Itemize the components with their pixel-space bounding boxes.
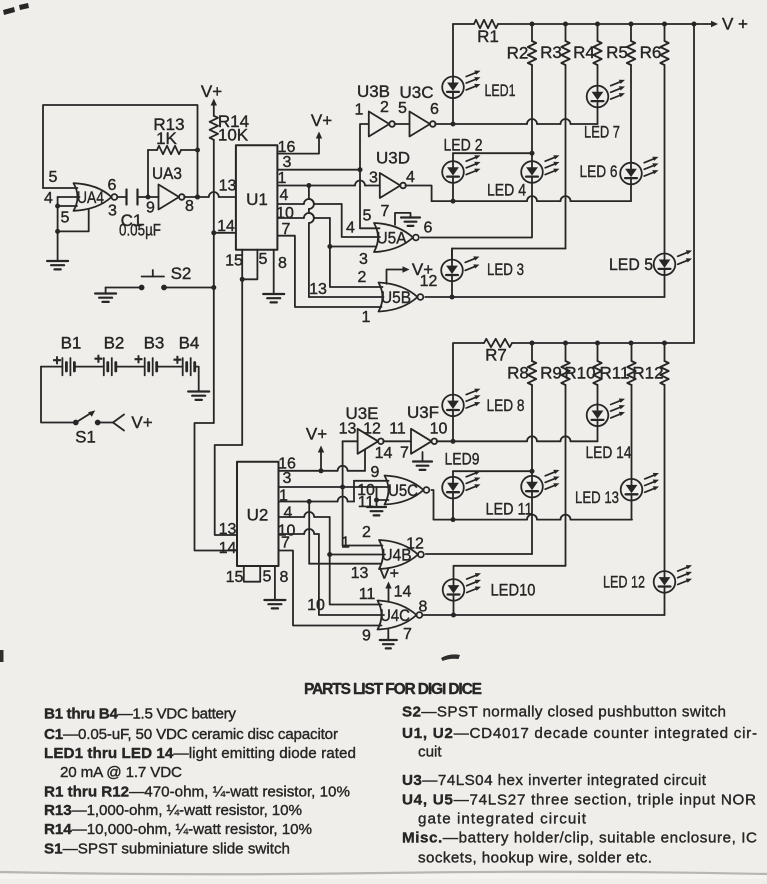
wire U1 pin7 to U5B pin1 xyxy=(277,236,381,307)
wire U1 pin14 xyxy=(214,232,236,234)
pin label 10 U5C xyxy=(357,482,375,499)
wire R4 to LED7 xyxy=(597,65,599,86)
artifact top-left marks xyxy=(3,3,29,15)
svg-text:B3: B3 xyxy=(144,334,165,353)
svg-text:5: 5 xyxy=(61,210,70,227)
wire LED1 cathode xyxy=(452,98,454,124)
pin label 13 U3E xyxy=(339,421,357,438)
pin label 7 U3F xyxy=(400,445,409,462)
wire to U2 pin13 xyxy=(215,279,243,535)
LED LED1 xyxy=(442,71,515,101)
pin label 4 UA4 xyxy=(44,190,53,207)
svg-text:R6: R6 xyxy=(640,43,662,62)
pin label 3 U3D xyxy=(369,170,378,187)
LED LED10 xyxy=(443,573,536,601)
wire battery series xyxy=(41,366,183,368)
svg-text:13: 13 xyxy=(219,178,237,195)
svg-text:U1, U2—CD4017 decade counter i: U1, U2—CD4017 decade counter integrated … xyxy=(402,725,757,742)
svg-text:3: 3 xyxy=(108,203,117,220)
svg-text:S2—SPST normally closed pushbu: S2—SPST normally closed pushbutton switc… xyxy=(402,703,726,720)
svg-text:15: 15 xyxy=(225,253,243,270)
pin label 11 U4C xyxy=(359,586,376,603)
svg-text:LED 4: LED 4 xyxy=(487,181,526,200)
svg-text:U1: U1 xyxy=(246,190,268,209)
pin label 9 UA3 xyxy=(146,200,155,217)
svg-text:13: 13 xyxy=(351,565,369,582)
svg-text:3: 3 xyxy=(369,170,378,187)
svg-text:5: 5 xyxy=(263,569,272,586)
svg-text:8: 8 xyxy=(419,598,428,615)
svg-text:7: 7 xyxy=(400,445,409,462)
wire U2 pin7 to U4C pin9 xyxy=(279,551,382,626)
wire V+ rail lower xyxy=(454,341,694,346)
pin label 1 U5B xyxy=(362,309,371,326)
svg-text:4: 4 xyxy=(346,220,355,237)
svg-text:8: 8 xyxy=(280,569,289,586)
svg-text:R8: R8 xyxy=(507,364,529,383)
NOR gate UA4 xyxy=(74,183,118,211)
wire R3 to LED3 xyxy=(452,65,566,260)
pin label 7 U2 xyxy=(281,535,290,552)
svg-text:sockets, hookup wire, solder e: sockets, hookup wire, solder etc. xyxy=(418,849,652,866)
wire LED10 cathode xyxy=(453,601,455,615)
resistor R11 xyxy=(600,343,636,385)
svg-text:3: 3 xyxy=(283,154,292,171)
LED LED6 xyxy=(580,157,659,185)
svg-text:14: 14 xyxy=(217,218,235,235)
wire U1 pin4 to U5A pin4 xyxy=(277,199,380,237)
pin label 7 U5A xyxy=(381,203,390,220)
wire R9 to LED10 xyxy=(454,385,566,579)
svg-text:LED 11: LED 11 xyxy=(486,500,533,519)
pin label 3 UA4 xyxy=(108,203,117,220)
wire U1 pin16 to V+ xyxy=(277,111,332,154)
svg-text:7: 7 xyxy=(403,626,412,643)
pin label 8 UA3 xyxy=(185,198,194,215)
LED LED3 xyxy=(441,256,524,281)
svg-text:V+: V+ xyxy=(131,413,152,432)
switch S2 xyxy=(139,264,192,290)
svg-text:5: 5 xyxy=(49,169,58,186)
pin label 1 U2 xyxy=(279,488,288,505)
pin label 8 U4C output xyxy=(419,598,428,615)
svg-text:U5C: U5C xyxy=(388,481,418,500)
svg-text:LED 3: LED 3 xyxy=(487,260,524,279)
pin label 4 U2 xyxy=(284,505,293,522)
svg-text:R14—10,000-ohm, ¼-watt resisto: R14—10,000-ohm, ¼-watt resistor, 10% xyxy=(44,821,312,838)
resistor R13 1K xyxy=(148,115,198,154)
wire U4C output row to LED12 xyxy=(423,593,664,618)
wire UA4 input ground net xyxy=(55,197,60,234)
svg-text:B4: B4 xyxy=(179,334,200,353)
pin label 7 U4C xyxy=(403,626,412,643)
svg-text:10: 10 xyxy=(430,421,448,438)
svg-text:B2: B2 xyxy=(104,334,125,353)
svg-text:1: 1 xyxy=(355,102,364,119)
wire LED8 cathode xyxy=(452,416,454,441)
wire R11 to LED13 xyxy=(631,385,633,479)
switch S1 xyxy=(73,410,101,446)
wire U2 pin1 to U4B pin13 xyxy=(309,502,381,564)
svg-text:7: 7 xyxy=(281,535,290,552)
LED LED7 xyxy=(584,80,625,142)
LED LED13 xyxy=(575,473,659,507)
battery B4 xyxy=(173,334,199,376)
wire S1 to V+ tap xyxy=(98,413,153,432)
pin label 13 U4B xyxy=(351,565,369,582)
svg-text:V +: V + xyxy=(722,15,748,34)
node V+ U2 xyxy=(306,425,327,471)
pin label 10 U4C xyxy=(307,597,325,614)
wire U2 pin10 to U4C pin10 xyxy=(279,529,385,615)
LED LED2 xyxy=(442,136,482,183)
pin label 1 U4B xyxy=(341,535,350,552)
wire U5B output row to LED5 xyxy=(425,275,664,299)
ground S2 xyxy=(95,288,116,302)
svg-text:11: 11 xyxy=(359,586,376,603)
svg-text:12: 12 xyxy=(363,421,381,438)
svg-text:LED 2: LED 2 xyxy=(444,136,483,155)
svg-text:11: 11 xyxy=(389,421,406,438)
inverter U3B xyxy=(357,82,395,137)
svg-text:LED9: LED9 xyxy=(445,450,480,469)
svg-text:R5: R5 xyxy=(606,43,628,62)
svg-text:LED 14: LED 14 xyxy=(586,443,632,462)
wire R13 left leg xyxy=(147,150,149,197)
svg-text:15: 15 xyxy=(226,569,244,586)
wire U4B output to LED11 xyxy=(426,553,532,555)
svg-text:5: 5 xyxy=(398,100,407,117)
wire U5A output to LED4 xyxy=(421,237,532,239)
battery B3 xyxy=(134,334,164,376)
wire V+ rail top xyxy=(453,15,748,34)
svg-text:U5B: U5B xyxy=(381,288,411,307)
wire U3E input from U2 pin3 xyxy=(343,441,358,487)
wire U3F output row to LED14 xyxy=(437,426,598,444)
svg-text:3: 3 xyxy=(359,251,368,268)
wire LED2 top row xyxy=(453,153,532,161)
svg-text:U4C: U4C xyxy=(380,606,410,625)
wire R2 to LED2/LED4 node xyxy=(530,65,535,161)
svg-text:V+: V+ xyxy=(412,260,433,279)
pin labels 15 5 8 U1 xyxy=(225,251,287,272)
svg-text:+: + xyxy=(134,351,143,368)
wire U1 pin1 to U5B pin13 xyxy=(309,186,384,298)
pin label 6 U3C xyxy=(430,101,439,118)
svg-text:5: 5 xyxy=(363,208,372,225)
svg-text:14: 14 xyxy=(375,445,393,462)
parts list title xyxy=(304,681,482,698)
svg-text:2: 2 xyxy=(362,524,371,541)
pin label 14 U2 xyxy=(219,540,237,557)
pin label 9 U4C xyxy=(362,628,371,645)
wire LED4 cathode to U5A out xyxy=(531,183,533,237)
svg-text:13: 13 xyxy=(339,421,357,438)
svg-text:U4, U5—74LS27 three section, t: U4, U5—74LS27 three section, triple inpu… xyxy=(402,791,756,808)
pin label 5 UA4 lower xyxy=(61,210,70,227)
svg-text:UA4: UA4 xyxy=(77,188,104,207)
svg-text:6: 6 xyxy=(108,177,117,194)
wire U2 pin4 to U4B pin1 and U4C pin11 xyxy=(279,512,386,605)
wire U2 pin16 to U3E pin14 xyxy=(279,449,366,473)
svg-text:20 mA @ 1.7 VDC: 20 mA @ 1.7 VDC xyxy=(60,764,182,781)
wire U1 pin10 to U5A pin3 and U5B pin2 xyxy=(277,213,382,287)
wire UA4 pin3 loop xyxy=(58,210,89,232)
pin label 5 U3C xyxy=(398,100,407,117)
svg-text:V+: V+ xyxy=(311,111,332,130)
wire R14/S2 net vertical xyxy=(211,140,216,423)
svg-text:5: 5 xyxy=(259,251,268,268)
pin label 12 U5B xyxy=(420,273,438,290)
ground U2 pin8 xyxy=(264,566,285,608)
pin label 2 U3B xyxy=(380,99,389,116)
wire UA4 input middle xyxy=(58,196,80,198)
resistor R9 xyxy=(540,343,570,385)
svg-text:2: 2 xyxy=(380,99,389,116)
wire U3B input xyxy=(360,124,369,170)
svg-text:C1—0.05-uF, 50 VDC ceramic dis: C1—0.05-uF, 50 VDC ceramic disc capacito… xyxy=(44,726,338,743)
wire LED3 anode xyxy=(451,249,453,260)
pin label 4 U3D xyxy=(406,169,415,186)
wire U5B V+ arrow xyxy=(387,260,434,284)
svg-text:R2: R2 xyxy=(507,44,529,63)
inverter U3C xyxy=(399,83,435,137)
wire LED9 top row xyxy=(453,471,532,477)
svg-text:U3F: U3F xyxy=(407,403,439,422)
ground U5C pin11 xyxy=(367,500,386,515)
pin label 3 U1 xyxy=(283,154,292,171)
pin label 10 U2 xyxy=(278,523,296,540)
wire U1 pin1 to U3D xyxy=(277,181,379,188)
wire LED11 cathode to U4B out xyxy=(531,497,533,554)
svg-text:+: + xyxy=(94,351,103,368)
svg-text:9: 9 xyxy=(146,200,155,217)
LED LED5 xyxy=(609,250,692,275)
wire R12 to LED12 xyxy=(664,385,666,571)
LED LED4 xyxy=(487,155,560,199)
capacitor C1 xyxy=(119,190,161,240)
LED LED8 xyxy=(442,389,524,417)
wire R8 to LED11 xyxy=(530,385,535,476)
svg-text:1: 1 xyxy=(341,535,350,552)
svg-text:R12: R12 xyxy=(632,364,663,383)
NOR gate U5C xyxy=(385,476,430,505)
svg-text:LED 12: LED 12 xyxy=(603,573,645,592)
wire R5 to LED6 xyxy=(630,65,632,163)
wire U5C output row to LED13 xyxy=(431,490,632,522)
pin label 16 U2 xyxy=(278,456,296,473)
svg-text:4: 4 xyxy=(44,190,53,207)
resistor R8 xyxy=(507,343,536,385)
artifact left edge mark xyxy=(0,650,4,662)
svg-text:0.05µF: 0.05µF xyxy=(119,221,161,240)
resistor R3 xyxy=(540,24,570,65)
wire U3D output row to LED6 xyxy=(405,184,631,203)
svg-text:10: 10 xyxy=(307,597,325,614)
svg-text:U3—74LS04 hex inverter integra: U3—74LS04 hex inverter integrated circui… xyxy=(402,772,707,789)
wire U2 pin3 to U4B pin2 xyxy=(343,487,383,546)
battery B1 xyxy=(53,334,82,376)
LED LED14 xyxy=(586,399,632,463)
pin label 14 U4C xyxy=(394,584,412,601)
IC U2 CD4017 xyxy=(237,462,279,566)
parts list left column xyxy=(44,706,356,858)
ground U1 pin8 xyxy=(263,250,284,303)
svg-text:LED1: LED1 xyxy=(485,81,516,100)
wire R6 to LED5 xyxy=(664,65,666,254)
NOR gate U4B xyxy=(379,540,424,569)
wire UA4 input bottom xyxy=(58,205,77,207)
LED LED12 xyxy=(603,565,692,593)
pin label 1 U1 xyxy=(278,170,287,187)
ground UA4 inputs xyxy=(47,231,68,269)
battery B2 xyxy=(94,334,124,376)
resistor R12 xyxy=(632,343,668,385)
svg-text:PARTS LIST FOR DIGI DICE: PARTS LIST FOR DIGI DICE xyxy=(304,681,482,698)
wire battery to S1 xyxy=(41,367,76,423)
NOR gate U5B xyxy=(379,283,424,312)
inverter U3E xyxy=(345,404,383,454)
wire UA4 output to C1 xyxy=(117,196,126,198)
wire U3B to U3C xyxy=(394,123,409,125)
svg-text:cuit: cuit xyxy=(418,744,442,761)
pin label 7 U1 xyxy=(282,221,291,238)
pin label 6 U5A output xyxy=(424,220,433,237)
svg-text:LED 7: LED 7 xyxy=(584,123,620,142)
inverter U3D xyxy=(376,149,410,199)
svg-text:7: 7 xyxy=(381,203,390,220)
svg-text:LED 6: LED 6 xyxy=(580,162,618,181)
svg-text:6: 6 xyxy=(430,101,439,118)
inverter UA3 xyxy=(152,164,185,210)
svg-text:gate integrated circuit: gate integrated circuit xyxy=(418,811,587,828)
svg-text:V+: V+ xyxy=(306,425,327,444)
svg-text:14: 14 xyxy=(394,584,412,601)
wire U5C pin10-11 tie xyxy=(374,487,389,503)
wire ground to S2 xyxy=(106,287,142,289)
inverter U3F xyxy=(407,403,439,454)
wire U3C output row to LED7 xyxy=(435,107,597,126)
svg-text:8: 8 xyxy=(185,198,194,215)
IC U1 CD4017 xyxy=(236,145,278,249)
svg-text:10K: 10K xyxy=(218,126,249,145)
wire C1 to node 9 xyxy=(138,195,151,200)
svg-text:4: 4 xyxy=(284,505,293,522)
svg-text:1: 1 xyxy=(362,309,371,326)
svg-text:Misc.—battery holder/clip, sui: Misc.—battery holder/clip, suitable encl… xyxy=(402,830,757,847)
pin label 10 U1 xyxy=(276,205,294,222)
wire U2 pin1 to U5C pin9 xyxy=(279,464,389,504)
ground U5A pin7 xyxy=(395,213,420,226)
svg-text:12: 12 xyxy=(406,535,424,552)
pin label 3 U2 xyxy=(283,470,292,487)
resistor R6 xyxy=(640,24,669,65)
NOR gate U4C xyxy=(378,601,423,630)
artifact bottom scan line xyxy=(0,872,767,875)
svg-text:B1: B1 xyxy=(61,334,82,353)
wire U1 pin3 xyxy=(277,167,362,172)
pin label 16 U1 xyxy=(278,139,296,156)
pin label 5 UA4 xyxy=(49,169,58,186)
resistor R14 10K xyxy=(210,112,249,145)
svg-text:6: 6 xyxy=(424,220,433,237)
svg-text:R3: R3 xyxy=(540,43,562,62)
ground U4C pin7 xyxy=(380,629,397,648)
pin label 12 U4B xyxy=(406,535,424,552)
svg-text:1K: 1K xyxy=(156,129,177,148)
pin label 13 U1 xyxy=(219,178,237,195)
wire S2 to net xyxy=(164,287,214,289)
svg-text:8: 8 xyxy=(278,255,287,272)
pin label 10 U3F xyxy=(430,421,448,438)
svg-text:UA3: UA3 xyxy=(152,164,182,183)
wire net to U5A pin5 xyxy=(360,170,380,229)
svg-text:S1—SPST subminiature slide swi: S1—SPST subminiature slide switch xyxy=(44,840,290,857)
svg-text:U2: U2 xyxy=(247,506,269,525)
parts list right column xyxy=(402,703,757,866)
wire rail to LED1 xyxy=(452,24,454,77)
pin label 13 U5B xyxy=(309,281,327,298)
wire U2 pin15-5 loop xyxy=(244,566,260,582)
pin label 11 U5C xyxy=(358,494,375,511)
svg-text:S1: S1 xyxy=(75,428,96,447)
node feedback junction xyxy=(195,148,200,200)
svg-text:U3D: U3D xyxy=(376,149,410,168)
svg-text:3: 3 xyxy=(283,470,292,487)
svg-text:14: 14 xyxy=(219,540,237,557)
pin labels 15 5 8 U2 xyxy=(226,569,289,587)
svg-text:LED 8: LED 8 xyxy=(487,396,525,415)
svg-text:S2: S2 xyxy=(171,264,192,283)
pin label 2 U4B xyxy=(362,524,371,541)
svg-text:R10: R10 xyxy=(564,364,595,383)
NOR gate U5A xyxy=(374,223,419,252)
wire UA3 output to U1 pin13 xyxy=(184,192,236,200)
resistor R4 xyxy=(573,24,602,65)
svg-text:R1: R1 xyxy=(477,27,499,46)
svg-text:9: 9 xyxy=(362,628,371,645)
wire LED9 cathode xyxy=(452,498,454,519)
wire U1 pin15-5 loop xyxy=(240,250,258,282)
pin label 12 U3E xyxy=(363,421,381,438)
wire U4C V+ pin14 xyxy=(379,566,399,602)
svg-text:R9: R9 xyxy=(540,364,562,383)
wire U3E to U3F xyxy=(383,440,411,442)
pin label 13 U2 xyxy=(219,521,237,538)
wire node to UA3 input xyxy=(148,196,159,198)
svg-text:LED10: LED10 xyxy=(491,581,536,600)
svg-text:LED 5: LED 5 xyxy=(609,255,653,274)
pin label 11 U3F xyxy=(389,421,406,438)
resistor R10 xyxy=(564,343,601,385)
svg-text:LED1 thru LED 14—light emittin: LED1 thru LED 14—light emitting diode ra… xyxy=(44,745,356,762)
svg-text:2: 2 xyxy=(358,269,367,286)
svg-text:10: 10 xyxy=(276,205,294,222)
pin label 1 U3B xyxy=(355,102,364,119)
artifact page edge xyxy=(0,874,767,879)
pin label 2 U5B xyxy=(358,269,367,286)
svg-text:13: 13 xyxy=(309,281,327,298)
pin label 4 U1 xyxy=(280,187,289,204)
wire LED3 cathode xyxy=(451,281,453,297)
resistor R5 xyxy=(606,24,635,65)
svg-text:11: 11 xyxy=(358,494,375,511)
svg-text:B1 thru B4—1.5 VDC battery: B1 thru B4—1.5 VDC battery xyxy=(44,706,236,723)
svg-text:4: 4 xyxy=(280,187,289,204)
wire feedback loop UA4/UA3 xyxy=(43,105,198,197)
pin label 6 UA4 output xyxy=(108,177,117,194)
svg-text:1: 1 xyxy=(278,170,287,187)
